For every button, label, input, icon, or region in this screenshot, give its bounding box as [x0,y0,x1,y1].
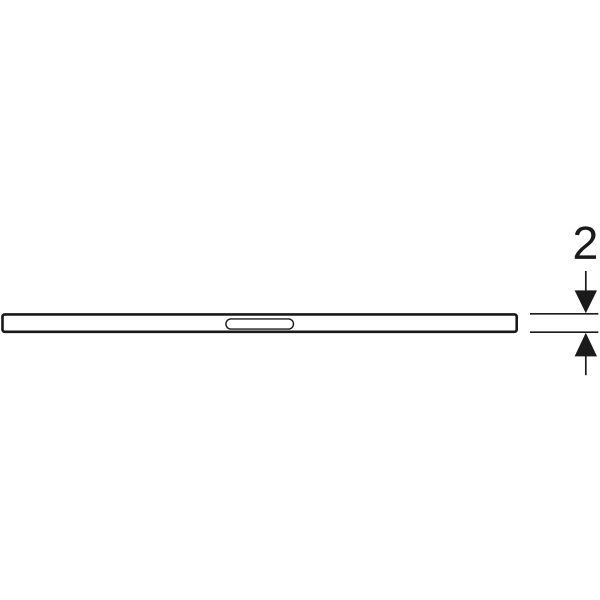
dimension text 2 [575,226,596,258]
drain outline (stadium) [226,319,294,329]
lower arrowhead (up) [575,333,597,357]
dimension extension line bottom [530,331,598,333]
dimension extension line top [530,313,598,315]
shower surface panel (side view) [3,314,517,331]
upper arrowhead (down) [575,290,597,313]
upper leader line [585,271,587,292]
lower leader line [585,355,587,375]
